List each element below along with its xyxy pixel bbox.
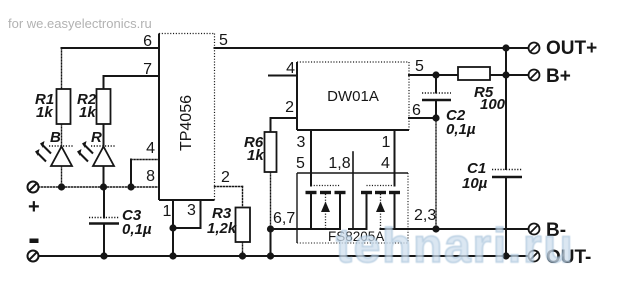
LED B symbol <box>37 145 74 167</box>
wire pin4 TP4056 horizontal (dotted) <box>131 159 159 161</box>
resistor R5 <box>458 67 490 80</box>
wire DW01A pin3 to FET1 gate <box>310 130 312 186</box>
wire DW01A pin6 horizontal <box>409 117 436 119</box>
wire R6 bottom (dotted) <box>270 172 272 229</box>
LED R symbol <box>79 145 116 167</box>
wire DW01A pin5 to R5 <box>409 74 458 76</box>
svg-text:1: 1 <box>163 203 172 220</box>
capacitor C2 <box>422 93 451 100</box>
svg-text:1k: 1k <box>247 147 264 164</box>
terminal labels <box>546 38 597 268</box>
svg-text:1,8: 1,8 <box>328 155 350 172</box>
wire pin1 TP4056 down <box>172 200 174 256</box>
watermark tehnari.ru <box>336 223 596 273</box>
wire R3 bottom (dotted) <box>242 242 244 256</box>
svg-text:1k: 1k <box>79 104 96 121</box>
wire LED R to plus rail <box>103 166 105 187</box>
svg-text:100: 100 <box>480 96 506 113</box>
wire R2 to LED R <box>103 124 105 146</box>
svg-text:6,7: 6,7 <box>273 210 295 227</box>
svg-text:8: 8 <box>146 168 155 185</box>
wire pin5 TP4056 to OUT+ top rail <box>215 47 529 49</box>
wire 1,8 middle vertical <box>352 152 354 229</box>
wire pin3 to pin1 horizontal <box>173 227 201 229</box>
svg-text:5: 5 <box>219 32 228 49</box>
terminal plus input <box>28 182 39 193</box>
terminal minus input <box>28 251 39 262</box>
resistor R6 <box>265 132 277 172</box>
svg-text:1: 1 <box>382 134 391 151</box>
svg-text:1,2k: 1,2k <box>207 220 237 237</box>
wire R5 right to B+ terminal <box>490 74 529 76</box>
svg-text:6: 6 <box>143 33 152 50</box>
resistor R3 <box>236 208 251 243</box>
wire C1 bottom to OUT- <box>505 178 507 257</box>
svg-text:4: 4 <box>381 155 390 172</box>
svg-text:6: 6 <box>412 102 421 119</box>
wire 1,8 bus middle <box>349 228 367 230</box>
svg-text:7: 7 <box>143 61 152 78</box>
wire LED B to plus rail (dotted) <box>61 166 63 187</box>
svg-text:for we.easyelectronics.ru: for we.easyelectronics.ru <box>8 16 152 31</box>
terminal B+ <box>529 70 540 81</box>
transistor Q1 body arrow <box>321 202 330 213</box>
wire pin6 TP4056 top-left horizontal <box>62 47 160 49</box>
IC U1 TP4056 box <box>159 34 215 201</box>
wire DW01A pin1 to FET2 gate <box>394 130 396 186</box>
terminal OUT- <box>529 251 540 262</box>
svg-text:OUT+: OUT+ <box>546 38 597 59</box>
svg-text:4: 4 <box>146 140 155 157</box>
svg-text:0,1µ: 0,1µ <box>122 221 152 238</box>
capacitor C3 <box>89 218 119 224</box>
svg-text:0,1µ: 0,1µ <box>446 121 476 138</box>
svg-text:5: 5 <box>296 155 305 172</box>
wire 6,7 bus left <box>271 228 341 230</box>
wire 2,3 bus right to B- junction <box>381 228 437 230</box>
wire DW01A pin2 horizontal <box>271 117 298 119</box>
resistor R2 <box>97 89 111 124</box>
capacitor C1 <box>492 170 522 178</box>
wire plus rail (dotted) <box>39 186 160 188</box>
pin labels TP4056 <box>143 32 230 220</box>
wire pin7 to R2 vertical <box>103 76 105 89</box>
wire C2 bottom vertical <box>435 101 437 118</box>
svg-text:B+: B+ <box>546 66 571 87</box>
wire C3 top <box>103 187 105 218</box>
transistor Q2 right MOSFET of FS8205A <box>361 186 400 230</box>
wire pin6 to R1 vertical (dotted) <box>61 48 63 89</box>
svg-text:TP4056: TP4056 <box>178 95 195 151</box>
value labels <box>35 84 506 238</box>
wire R6 top vertical <box>270 118 272 132</box>
wire C3 bottom <box>103 224 105 257</box>
wire R1 to LED B (dotted) <box>61 124 63 146</box>
svg-text:B: B <box>50 129 61 146</box>
svg-text:DW01A: DW01A <box>327 88 379 105</box>
IC U2 DW01A box <box>297 62 409 130</box>
wire pin2 to R3 vertical (dotted) <box>242 187 244 208</box>
wire pin3 TP4056 down <box>200 200 202 228</box>
wire R6 node to bottom rail <box>270 229 272 256</box>
wire pin2 TP4056 horizontal (dotted) <box>215 186 243 188</box>
wire C2 node to B- junction (dotted) <box>435 118 437 229</box>
svg-text:4: 4 <box>286 60 295 77</box>
wire OUT+ to C1 vertical <box>505 48 507 169</box>
resistor R1 <box>57 89 71 124</box>
svg-text:1k: 1k <box>36 104 53 121</box>
transistor Q2 body arrow <box>376 202 385 213</box>
svg-text:3: 3 <box>297 134 306 151</box>
wire pin4 vertical to plus rail <box>130 160 132 188</box>
wire C2 top vertical <box>435 75 437 93</box>
terminal OUT+ <box>529 43 540 54</box>
svg-text:10µ: 10µ <box>462 175 488 192</box>
wire DW01A pin4 stub <box>269 75 297 77</box>
svg-text:2: 2 <box>221 169 230 186</box>
wire pin7 TP4056 horizontal <box>104 75 160 77</box>
wire bottom rail OUT- <box>39 255 529 257</box>
svg-text:3: 3 <box>187 202 196 219</box>
IC U3 FS8205A box <box>297 173 408 243</box>
transistor Q1 left MOSFET of FS8205A <box>306 186 346 230</box>
svg-text:5: 5 <box>415 58 424 75</box>
pin labels DW01A <box>285 58 424 151</box>
svg-text:+: + <box>28 196 40 218</box>
svg-text:R: R <box>91 129 102 146</box>
pin labels FS8205A <box>273 155 436 227</box>
terminal B- <box>529 224 540 235</box>
wire B- line to terminal <box>436 228 529 230</box>
svg-text:2: 2 <box>285 99 294 116</box>
